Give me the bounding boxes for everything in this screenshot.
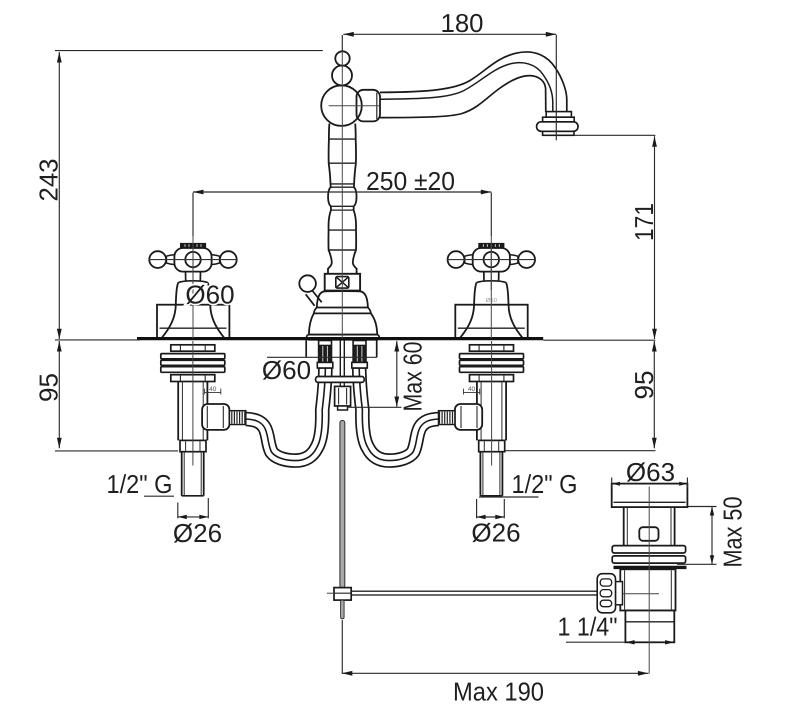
- left flexible hose: [246, 367, 325, 461]
- spout tube bottom edge: [380, 76, 546, 118]
- rod clamp block: [334, 588, 351, 601]
- dim Max 50: [688, 506, 717, 508]
- svg-text:243: 243: [34, 159, 64, 202]
- drain neck: [623, 507, 625, 545]
- faucet centreline: [341, 52, 343, 339]
- right flexible hose: [359, 367, 438, 461]
- left handle left ball: [149, 251, 166, 268]
- right handle right ball: [518, 251, 535, 268]
- dim Ø63: [611, 478, 613, 489]
- svg-text:Max 50: Max 50: [718, 497, 748, 568]
- label 1/2 G left: [144, 495, 174, 497]
- right 40 mini dimension: [464, 392, 480, 394]
- right hose nipple ribs: [439, 411, 455, 425]
- left handle crosshair: [149, 259, 237, 261]
- svg-text:1/2" G: 1/2" G: [107, 469, 173, 499]
- left coupling: [180, 440, 206, 451]
- left backnut upper: [171, 345, 215, 351]
- drain flange (Ø63): [612, 484, 688, 508]
- spout tube inner line: [380, 63, 553, 112]
- left handle hub: [174, 248, 211, 272]
- left bell shoulder: [178, 281, 208, 283]
- right tee nut: [455, 404, 482, 430]
- rod lower stub: [341, 600, 345, 619]
- faucet spout assembly: [321, 51, 578, 135]
- left bell left side: [161, 283, 178, 339]
- drain ring plate 1: [612, 546, 685, 553]
- right valve centreline: [491, 341, 493, 466]
- right handle left neck: [465, 255, 473, 265]
- dim Ø26 left: [177, 503, 179, 519]
- right valve under-deck group: [439, 341, 524, 496]
- svg-text:1 1/4": 1 1/4": [558, 612, 618, 642]
- finial small ball: [335, 51, 349, 65]
- left threaded shank: [177, 382, 179, 441]
- spout tube top edge: [380, 52, 567, 112]
- left handle right neck: [211, 255, 219, 265]
- right tailpipe: [479, 452, 481, 496]
- horizontal pop-up linkage rod: [351, 591, 597, 595]
- label 1/2 G right: [479, 496, 539, 498]
- spout body ball: [321, 85, 362, 126]
- left handle right ball: [220, 251, 237, 268]
- right backnut upper: [470, 345, 514, 351]
- pop-up rod housing: [335, 386, 351, 406]
- spout connector collar: [357, 90, 381, 122]
- svg-text:180: 180: [441, 8, 484, 38]
- svg-text:95: 95: [629, 371, 659, 400]
- right handle crosshair: [447, 259, 535, 261]
- dim 243: [58, 52, 60, 339]
- left valve centreline: [192, 341, 194, 466]
- right handle left ball: [448, 251, 465, 268]
- lower body diameter arrows: [626, 640, 635, 644]
- clamp plate: [316, 377, 365, 383]
- right handle hub circle: [484, 252, 499, 267]
- right threaded shank: [476, 382, 478, 441]
- dim 95 left: [58, 341, 60, 448]
- spout outlet lip: [543, 131, 574, 135]
- label Ø60 centre: [267, 356, 377, 358]
- right washer stack: [460, 354, 524, 359]
- drain knurled nut connector: [615, 582, 622, 605]
- body dome tiers: [317, 291, 368, 307]
- left handle left neck: [166, 255, 174, 265]
- left tee nut: [202, 404, 229, 430]
- drain ring plate 2: [612, 556, 685, 563]
- label 1 1/4 inch: [566, 641, 625, 643]
- dim 171: [654, 136, 656, 339]
- right backnut lower: [470, 375, 514, 382]
- left handle cap: [181, 243, 206, 247]
- svg-text:171: 171: [629, 203, 659, 241]
- dim Ø26 right: [476, 499, 478, 518]
- svg-text:Ø60: Ø60: [262, 355, 311, 385]
- svg-text:Ø26: Ø26: [173, 518, 222, 548]
- finial middle ball: [332, 66, 352, 86]
- dim Max 190: [342, 672, 649, 674]
- svg-text:Ø26: Ø26: [471, 518, 520, 548]
- svg-text:40: 40: [468, 386, 476, 393]
- svg-text:40: 40: [209, 386, 217, 393]
- right handle right neck: [510, 255, 518, 265]
- left backnut lower: [171, 375, 215, 382]
- dim Max 60: [396, 341, 398, 407]
- right handle hub: [473, 248, 510, 272]
- spout outlet flange: [546, 112, 571, 118]
- spout body centreline: [329, 105, 380, 107]
- svg-text:1/2" G: 1/2" G: [512, 469, 578, 499]
- left handle group: [149, 243, 237, 339]
- dim 95 right: [653, 341, 655, 448]
- right bell shoulder: [477, 281, 507, 283]
- centre supply shank left: [319, 341, 332, 369]
- left bell right side: [208, 283, 225, 339]
- pop-up lever ball: [299, 275, 316, 292]
- cartridge collar with X mark: [325, 274, 360, 291]
- right handle group: [447, 243, 535, 339]
- pop-up rod upper tube: [339, 341, 341, 377]
- drain centreline: [648, 487, 650, 674]
- svg-text:Max 190: Max 190: [453, 677, 544, 707]
- left washer stack: [161, 354, 225, 359]
- pop-up lever arm: [312, 291, 321, 303]
- drain body: [620, 569, 675, 610]
- left valve under-deck group: [161, 341, 246, 496]
- pop-up rod: [340, 421, 345, 588]
- spout outlet bulge: [537, 122, 578, 132]
- right bell base plate: [455, 305, 527, 339]
- left handle centreline: [192, 236, 194, 339]
- right handle cap: [479, 243, 504, 247]
- drain ring plate 3: [614, 566, 687, 569]
- dim 180: [343, 33, 556, 35]
- left handle stem: [185, 272, 187, 282]
- faucet column: [328, 124, 357, 274]
- svg-text:Max 60: Max 60: [398, 342, 428, 412]
- left hose nipple ribs: [229, 411, 245, 425]
- pop-up rod stub: [338, 406, 348, 410]
- left 40 mini dimension: [205, 392, 221, 394]
- drain button window: [639, 527, 658, 541]
- left tailpipe: [181, 452, 183, 496]
- right handle stem: [483, 272, 485, 282]
- countertop deck line: [137, 337, 543, 340]
- svg-text:250 ±20: 250 ±20: [366, 166, 455, 196]
- svg-text:Ø60: Ø60: [185, 280, 234, 310]
- drain knurled nut: [597, 574, 615, 613]
- right bell right side: [506, 283, 523, 339]
- dim 250 plus-minus 20: [193, 191, 491, 193]
- right handle centreline: [490, 236, 492, 339]
- body plinth: [307, 335, 380, 340]
- centre supply shank right: [353, 341, 366, 369]
- drain lower body (1 1/4"): [625, 611, 674, 643]
- under-deck flange (Ø60): [305, 340, 307, 357]
- right bell left side: [460, 283, 477, 339]
- left bell base plate: [157, 305, 229, 339]
- svg-text:95: 95: [34, 373, 64, 402]
- right coupling: [479, 440, 505, 451]
- svg-text:Ø63: Ø63: [626, 457, 675, 487]
- left handle hub circle: [185, 252, 200, 267]
